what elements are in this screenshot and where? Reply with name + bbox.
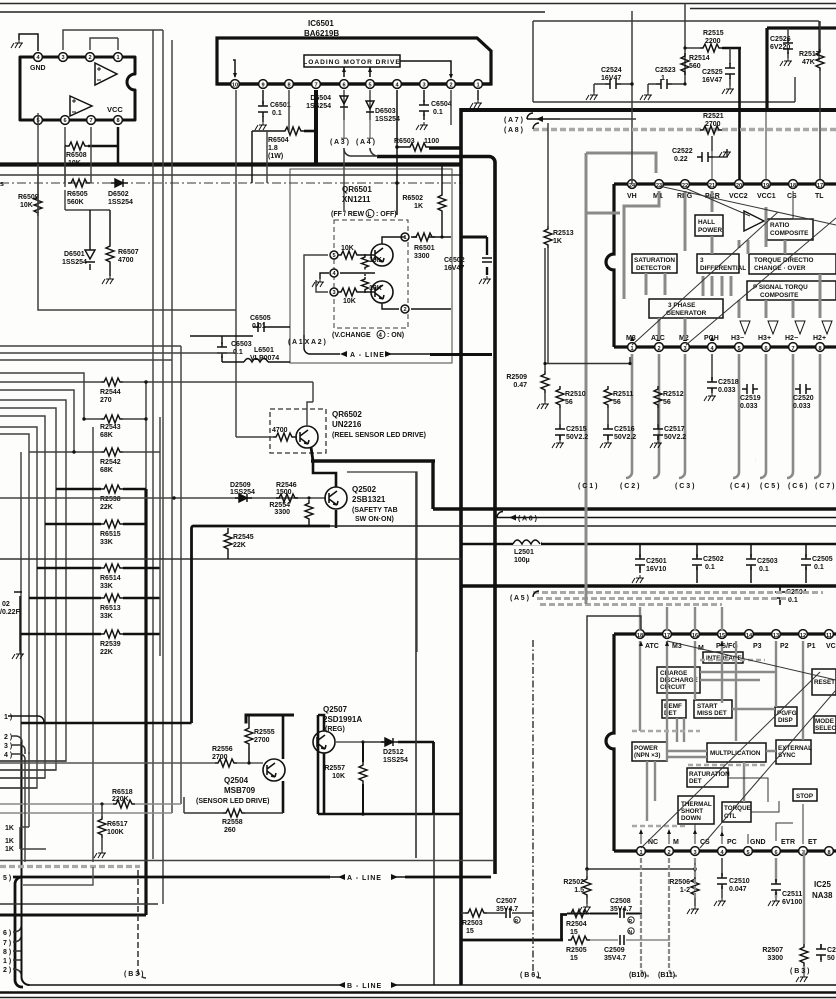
- svg-text:1: 1: [116, 55, 119, 61]
- svg-text:H3+: H3+: [758, 335, 771, 342]
- svg-text:(NPN ×3): (NPN ×3): [634, 752, 660, 759]
- svg-text:12: 12: [800, 633, 806, 639]
- svg-text:R6518: R6518: [112, 789, 133, 796]
- svg-text:1SS254: 1SS254: [62, 259, 87, 266]
- svg-text:L6501: L6501: [254, 347, 274, 354]
- svg-text:16: 16: [692, 633, 698, 639]
- svg-text:0.1: 0.1: [272, 110, 282, 117]
- svg-text:SELEC: SELEC: [815, 725, 836, 732]
- svg-text:D6504: D6504: [310, 95, 331, 102]
- svg-text:R6504: R6504: [268, 137, 289, 144]
- svg-text:15: 15: [719, 633, 725, 639]
- svg-text:13: 13: [773, 633, 779, 639]
- svg-text:TORQUE DIRECTIO: TORQUE DIRECTIO: [754, 257, 814, 264]
- svg-text:1100: 1100: [424, 138, 439, 145]
- svg-text:2700: 2700: [254, 737, 270, 744]
- svg-text:( C 7 ): ( C 7 ): [815, 483, 834, 490]
- svg-text:16V47: 16V47: [702, 77, 722, 84]
- svg-text:CIRCUIT: CIRCUIT: [660, 684, 686, 691]
- svg-text:POWER: POWER: [634, 745, 658, 752]
- svg-text:C2516: C2516: [614, 426, 635, 433]
- svg-text:21: 21: [709, 183, 715, 189]
- svg-text:NA38: NA38: [812, 891, 833, 900]
- svg-text:0.1: 0.1: [759, 566, 769, 573]
- svg-text:68K: 68K: [100, 467, 113, 474]
- svg-text:2200: 2200: [705, 38, 721, 45]
- svg-text:R6508: R6508: [66, 152, 87, 159]
- svg-text:0.047: 0.047: [729, 886, 747, 893]
- svg-text:0.47: 0.47: [513, 382, 527, 389]
- svg-text:1SS254: 1SS254: [108, 199, 133, 206]
- svg-text:L: L: [368, 212, 372, 218]
- svg-text:4700: 4700: [118, 257, 134, 264]
- svg-text:R2505: R2505: [566, 947, 587, 954]
- svg-text:L2501: L2501: [514, 549, 534, 556]
- svg-text:1 ): 1 ): [3, 958, 11, 965]
- svg-text:C2503: C2503: [757, 558, 778, 565]
- svg-text:R2510: R2510: [565, 391, 586, 398]
- svg-text:R2515: R2515: [703, 30, 724, 37]
- svg-text:2SD1991A: 2SD1991A: [323, 715, 362, 724]
- svg-text:TORQUE: TORQUE: [724, 805, 751, 812]
- svg-text:VCC: VCC: [107, 105, 123, 114]
- svg-text:C2510: C2510: [729, 878, 750, 885]
- svg-text:( B 3 ): ( B 3 ): [790, 968, 809, 975]
- svg-text:1-2: 1-2: [680, 887, 690, 894]
- svg-text:C2509: C2509: [604, 947, 625, 954]
- svg-text:270: 270: [100, 397, 112, 404]
- svg-text:R2538: R2538: [100, 496, 121, 503]
- svg-text:7: 7: [314, 83, 317, 89]
- svg-text:( A 4 ): ( A 4 ): [356, 139, 375, 146]
- svg-text:8: 8: [818, 346, 821, 352]
- svg-text:C2505: C2505: [812, 556, 833, 563]
- svg-text:20: 20: [736, 183, 742, 189]
- svg-text:8: 8: [287, 83, 290, 89]
- svg-text:1K: 1K: [5, 838, 14, 845]
- svg-text:10K: 10K: [343, 298, 356, 305]
- svg-text:B - LINE: B - LINE: [347, 983, 382, 990]
- svg-text:3: 3: [332, 290, 335, 296]
- svg-text:SHORT: SHORT: [681, 808, 703, 815]
- svg-text:C2524: C2524: [601, 67, 622, 74]
- svg-text:P SIGNAL TORQU: P SIGNAL TORQU: [753, 284, 808, 291]
- svg-text:SW ON·ON): SW ON·ON): [355, 516, 394, 523]
- svg-text:( A 3 ): ( A 3 ): [330, 139, 349, 146]
- svg-text:1 ): 1 ): [4, 714, 12, 721]
- svg-text:C2511: C2511: [782, 891, 802, 898]
- svg-text:CHARGE: CHARGE: [660, 670, 687, 677]
- svg-text:R2544: R2544: [100, 389, 121, 396]
- svg-text:POWER: POWER: [698, 227, 723, 234]
- svg-text:P3: P3: [753, 643, 762, 650]
- svg-text:50V2.2: 50V2.2: [614, 434, 636, 441]
- svg-text:R2517: R2517: [799, 51, 820, 58]
- svg-text:START: START: [697, 703, 718, 710]
- svg-text:9: 9: [261, 83, 264, 89]
- svg-text:(FF / REW: (FF / REW: [331, 211, 364, 218]
- svg-text:56: 56: [613, 399, 621, 406]
- svg-text:H2+: H2+: [813, 335, 826, 342]
- svg-text:RATIO: RATIO: [770, 222, 789, 229]
- svg-text:6 ): 6 ): [3, 930, 11, 937]
- svg-text:7: 7: [89, 118, 92, 124]
- svg-text:C2522: C2522: [672, 148, 693, 155]
- svg-text:3: 3: [700, 257, 704, 264]
- svg-text:17: 17: [817, 183, 823, 189]
- svg-text:(V.CHANGE: (V.CHANGE: [332, 332, 371, 339]
- svg-text:6: 6: [342, 83, 345, 89]
- svg-text:C6504: C6504: [431, 101, 452, 108]
- svg-text:56: 56: [663, 399, 671, 406]
- svg-text:( A 8 ): ( A 8 ): [504, 127, 523, 134]
- svg-text:VLP0074: VLP0074: [250, 355, 279, 362]
- svg-text:IC6501: IC6501: [308, 19, 334, 28]
- svg-text:R2543: R2543: [100, 424, 121, 431]
- svg-text:15: 15: [466, 928, 474, 935]
- svg-text:3: 3: [683, 346, 686, 352]
- svg-text:6: 6: [774, 850, 777, 856]
- svg-text:C6501: C6501: [270, 102, 291, 109]
- svg-text:C2508: C2508: [610, 898, 631, 905]
- svg-text:RESET: RESET: [814, 679, 835, 686]
- svg-text:QR6501: QR6501: [342, 185, 372, 194]
- svg-text:Q2507: Q2507: [323, 705, 348, 714]
- svg-text:( A 7 ): ( A 7 ): [504, 117, 523, 124]
- svg-text:0.1: 0.1: [705, 564, 715, 571]
- svg-text:: ON): : ON): [387, 332, 404, 339]
- svg-text:16V10: 16V10: [646, 566, 666, 573]
- svg-text:( A 6 ): ( A 6 ): [518, 516, 537, 523]
- svg-text:R2545: R2545: [233, 534, 254, 541]
- svg-text:C6503: C6503: [231, 341, 252, 348]
- svg-text:6: 6: [63, 118, 66, 124]
- svg-text:3 ): 3 ): [4, 743, 12, 750]
- svg-text:8: 8: [116, 118, 119, 124]
- svg-text:A - LINE: A - LINE: [347, 875, 382, 882]
- svg-text:COMPOSITE: COMPOSITE: [770, 230, 809, 237]
- svg-text:(SAFETY TAB: (SAFETY TAB: [352, 507, 398, 514]
- svg-text:47K: 47K: [802, 59, 815, 66]
- svg-text:33K: 33K: [100, 613, 113, 620]
- svg-text:0.033: 0.033: [718, 387, 736, 394]
- svg-text:CTL: CTL: [724, 813, 736, 820]
- svg-text:(REEL SENSOR LED DRIVE): (REEL SENSOR LED DRIVE): [332, 432, 426, 439]
- svg-text:16V47: 16V47: [444, 265, 464, 272]
- svg-text:7 ): 7 ): [3, 940, 11, 947]
- svg-text:11: 11: [826, 633, 832, 639]
- svg-text:5: 5: [746, 850, 749, 856]
- svg-text:ETR: ETR: [781, 839, 795, 846]
- svg-text:10K: 10K: [369, 285, 382, 292]
- svg-text:56: 56: [565, 399, 573, 406]
- svg-text:3300: 3300: [414, 253, 430, 260]
- svg-text:Q2502: Q2502: [352, 485, 377, 494]
- svg-text:22K: 22K: [233, 542, 246, 549]
- svg-text:1.5: 1.5: [574, 887, 584, 894]
- svg-text:R6502: R6502: [402, 195, 423, 202]
- svg-text:260: 260: [224, 827, 236, 834]
- svg-text:( C 4 ): ( C 4 ): [730, 483, 749, 490]
- svg-text:( C 6 ): ( C 6 ): [788, 483, 807, 490]
- svg-text:D6503: D6503: [375, 108, 396, 115]
- svg-text:MISS DET: MISS DET: [697, 710, 727, 717]
- svg-text:8 ): 8 ): [3, 949, 11, 956]
- svg-text:5: 5: [368, 83, 371, 89]
- svg-text:10: 10: [232, 83, 238, 89]
- svg-text:C6505: C6505: [250, 315, 271, 322]
- svg-text:15: 15: [570, 955, 578, 962]
- svg-text:D6502: D6502: [108, 191, 129, 198]
- svg-text:GENERATOR: GENERATOR: [666, 310, 707, 317]
- svg-text:C2515: C2515: [566, 426, 587, 433]
- svg-text:C2: C2: [827, 947, 836, 954]
- svg-text:R6513: R6513: [100, 605, 121, 612]
- svg-text:5: 5: [737, 346, 740, 352]
- svg-text:10K: 10K: [369, 257, 382, 264]
- svg-text:( C 3 ): ( C 3 ): [675, 483, 694, 490]
- svg-text:2 ): 2 ): [3, 967, 11, 974]
- svg-text:0.1: 0.1: [433, 109, 443, 116]
- svg-text:R2507: R2507: [762, 947, 783, 954]
- svg-text:H3−: H3−: [731, 335, 744, 342]
- svg-text:R: R: [515, 919, 519, 925]
- svg-text:GND: GND: [750, 839, 766, 846]
- svg-text:3: 3: [61, 55, 64, 61]
- svg-text:2700: 2700: [705, 121, 721, 128]
- svg-text:6: 6: [764, 346, 767, 352]
- svg-text:R2521: R2521: [703, 113, 724, 120]
- svg-text:560: 560: [689, 63, 701, 70]
- svg-text:DETECTOR: DETECTOR: [636, 265, 671, 272]
- svg-text:GND: GND: [30, 65, 46, 72]
- svg-text:ET: ET: [808, 839, 818, 846]
- svg-text:STOP: STOP: [796, 793, 813, 800]
- svg-text:QR6502: QR6502: [332, 410, 362, 419]
- svg-text:R2511: R2511: [613, 391, 633, 398]
- svg-text:R6515: R6515: [100, 531, 121, 538]
- svg-text:R6501: R6501: [414, 245, 435, 252]
- svg-text:14: 14: [746, 633, 753, 639]
- svg-text:1K: 1K: [5, 825, 14, 832]
- svg-text:220K: 220K: [112, 796, 129, 803]
- svg-text:R2557: R2557: [324, 765, 345, 772]
- svg-text:( C 1 ): ( C 1 ): [578, 483, 597, 490]
- svg-text:DOWN: DOWN: [681, 815, 701, 822]
- svg-text:15: 15: [570, 929, 578, 936]
- svg-text:10K: 10K: [341, 245, 354, 252]
- svg-text:17: 17: [664, 633, 670, 639]
- svg-text:R2555: R2555: [254, 729, 275, 736]
- svg-text:1K: 1K: [5, 846, 14, 853]
- svg-text:MODE: MODE: [815, 718, 834, 725]
- svg-text:Q2504: Q2504: [224, 776, 249, 785]
- svg-text:R2504: R2504: [566, 921, 587, 928]
- svg-text:10K: 10K: [20, 202, 33, 209]
- svg-text:R2542: R2542: [100, 459, 121, 466]
- svg-text:4700: 4700: [272, 427, 288, 434]
- svg-text:560K: 560K: [67, 199, 84, 206]
- svg-text:22K: 22K: [100, 649, 113, 656]
- svg-text:: OFF): : OFF): [376, 211, 397, 218]
- svg-text:C2523: C2523: [655, 67, 676, 74]
- svg-text:1: 1: [476, 83, 479, 89]
- svg-text:1K: 1K: [553, 238, 562, 245]
- svg-text:2 ): 2 ): [4, 734, 12, 741]
- svg-text:R2502: R2502: [563, 879, 584, 886]
- svg-text:( B 3 ): ( B 3 ): [124, 971, 143, 978]
- svg-text:10K: 10K: [68, 160, 81, 167]
- svg-text:DIFFERENTIAL: DIFFERENTIAL: [700, 265, 746, 272]
- svg-text:R2509: R2509: [506, 374, 527, 381]
- svg-text:DISP: DISP: [778, 717, 793, 724]
- svg-text:A - LINE: A - LINE: [350, 352, 385, 359]
- svg-text:R6505: R6505: [67, 191, 88, 198]
- svg-text:33K: 33K: [100, 539, 113, 546]
- svg-text:19: 19: [763, 183, 769, 189]
- svg-text:C6502: C6502: [444, 257, 465, 264]
- svg-text:R2503: R2503: [462, 920, 483, 927]
- svg-text:R6517: R6517: [107, 821, 128, 828]
- svg-text:VCC1: VCC1: [757, 193, 776, 200]
- svg-text:35V4.7: 35V4.7: [610, 906, 632, 913]
- svg-text:2: 2: [449, 83, 452, 89]
- svg-text:VC: VC: [826, 643, 836, 650]
- svg-text:100K: 100K: [107, 829, 124, 836]
- svg-text:02: 02: [2, 601, 10, 608]
- svg-text:2: 2: [403, 307, 406, 313]
- svg-text:M: M: [673, 839, 679, 846]
- svg-text:0.033: 0.033: [740, 403, 758, 410]
- svg-text:1: 1: [639, 850, 642, 856]
- svg-text:SATURATION: SATURATION: [634, 257, 675, 264]
- svg-text:LOADING MOTOR DRIVE: LOADING MOTOR DRIVE: [303, 59, 401, 66]
- svg-text:0.1: 0.1: [814, 564, 824, 571]
- svg-text:( C 5 ): ( C 5 ): [760, 483, 779, 490]
- svg-text:(B11): (B11): [658, 972, 675, 979]
- svg-text:R2513: R2513: [553, 230, 574, 237]
- svg-text:XN1211: XN1211: [342, 195, 371, 204]
- svg-text:2: 2: [657, 346, 660, 352]
- svg-text:1: 1: [630, 346, 633, 352]
- svg-text:R2506: R2506: [669, 879, 690, 886]
- svg-text:R2558: R2558: [222, 819, 243, 826]
- svg-text:D2509: D2509: [230, 482, 251, 489]
- svg-text:R2556: R2556: [212, 746, 233, 753]
- svg-text:2SB1321: 2SB1321: [352, 495, 386, 504]
- svg-text:C2517: C2517: [664, 426, 685, 433]
- svg-text:P2: P2: [780, 643, 789, 650]
- svg-text:/0.22F: /0.22F: [0, 609, 21, 616]
- svg-text:P1: P1: [807, 643, 816, 650]
- svg-text:UN2216: UN2216: [332, 420, 362, 429]
- svg-text:s: s: [0, 181, 4, 188]
- svg-text:8: 8: [827, 850, 830, 856]
- svg-text:R: R: [629, 919, 633, 925]
- svg-text:PC: PC: [727, 839, 737, 846]
- svg-text:VCC2: VCC2: [729, 193, 748, 200]
- svg-text:SYNC: SYNC: [778, 752, 796, 759]
- svg-text:(B10): (B10): [629, 972, 647, 979]
- svg-text:MULTPLICATION: MULTPLICATION: [710, 750, 761, 757]
- svg-text:5 ): 5 ): [3, 875, 11, 882]
- svg-text:2700: 2700: [212, 754, 228, 761]
- svg-text:C2525: C2525: [702, 69, 723, 76]
- svg-text:0.22: 0.22: [674, 156, 688, 163]
- svg-text:R2514: R2514: [689, 55, 710, 62]
- svg-text:22K: 22K: [100, 504, 113, 511]
- svg-text:IC25: IC25: [814, 880, 831, 889]
- svg-text:( A 1 X A 2 ): ( A 1 X A 2 ): [288, 339, 326, 346]
- svg-text:3300: 3300: [767, 955, 783, 962]
- svg-text:R6509: R6509: [18, 194, 39, 201]
- svg-text:50V2.2: 50V2.2: [566, 434, 588, 441]
- svg-text:VH: VH: [627, 193, 637, 200]
- svg-text:1.8: 1.8: [268, 145, 278, 152]
- svg-text:C2502: C2502: [703, 556, 724, 563]
- svg-text:100µ: 100µ: [514, 557, 530, 564]
- svg-text:50: 50: [827, 955, 835, 962]
- svg-text:(REG): (REG): [325, 726, 345, 733]
- svg-text:18: 18: [790, 183, 796, 189]
- svg-text:1: 1: [403, 235, 406, 241]
- svg-text:2: 2: [88, 55, 91, 61]
- svg-text:(1W): (1W): [268, 153, 283, 160]
- svg-text:C2520: C2520: [793, 395, 814, 402]
- svg-text:D2512: D2512: [383, 749, 404, 756]
- svg-text:COMPOSITE: COMPOSITE: [760, 292, 799, 299]
- svg-text:R2554: R2554: [269, 502, 290, 509]
- svg-text:6V100: 6V100: [782, 899, 802, 906]
- svg-text:C2507: C2507: [496, 898, 517, 905]
- svg-text:3: 3: [693, 850, 696, 856]
- svg-text:MSB709: MSB709: [224, 786, 256, 795]
- svg-text:RATURATION: RATURATION: [689, 771, 730, 778]
- svg-text:33K: 33K: [100, 583, 113, 590]
- svg-text:DET: DET: [689, 778, 702, 785]
- svg-text:5: 5: [332, 253, 335, 259]
- svg-text:18: 18: [637, 633, 643, 639]
- svg-text:1SS254: 1SS254: [383, 757, 408, 764]
- svg-text:7: 7: [791, 346, 794, 352]
- svg-text:R6514: R6514: [100, 575, 121, 582]
- svg-text:R6507: R6507: [118, 249, 139, 256]
- svg-text:R2512: R2512: [663, 391, 684, 398]
- svg-text:ATC: ATC: [645, 643, 659, 650]
- svg-text:2: 2: [667, 850, 670, 856]
- svg-text:68K: 68K: [100, 432, 113, 439]
- svg-text:1K: 1K: [414, 203, 423, 210]
- svg-text:(SENSOR LED DRIVE): (SENSOR LED DRIVE): [196, 798, 270, 805]
- svg-text:C2518: C2518: [718, 379, 739, 386]
- svg-text:H2−: H2−: [785, 335, 798, 342]
- svg-text:D6501: D6501: [64, 251, 85, 258]
- svg-text:1500: 1500: [276, 489, 292, 496]
- svg-text:1SS254: 1SS254: [230, 489, 255, 496]
- svg-text:0.01: 0.01: [252, 323, 266, 330]
- svg-text:16V47: 16V47: [601, 75, 621, 82]
- svg-text:3: 3: [422, 83, 425, 89]
- svg-text:DISCHARGE: DISCHARGE: [660, 677, 698, 684]
- svg-text:R2546: R2546: [276, 482, 297, 489]
- svg-text:0.033: 0.033: [793, 403, 811, 410]
- svg-text:C2519: C2519: [740, 395, 761, 402]
- svg-text:R2539: R2539: [100, 641, 121, 648]
- svg-text:35V4.7: 35V4.7: [604, 955, 626, 962]
- svg-text:50V2.2: 50V2.2: [664, 434, 686, 441]
- svg-text:HALL: HALL: [698, 219, 715, 226]
- svg-text:TL: TL: [815, 193, 824, 200]
